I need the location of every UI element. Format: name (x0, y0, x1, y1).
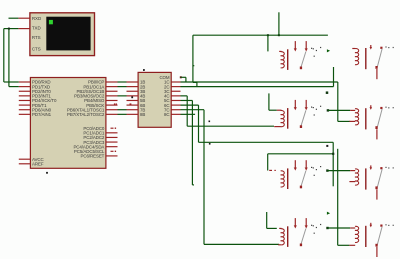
svg-text:RXD: RXD (32, 16, 42, 21)
svg-text:AREF: AREF (32, 162, 44, 167)
svg-text:PB7/XTAL2/TOSC2: PB7/XTAL2/TOSC2 (67, 112, 105, 117)
svg-text:CTS: CTS (32, 46, 41, 51)
svg-text:PD7/AIN1: PD7/AIN1 (32, 112, 52, 117)
svg-text:TXD: TXD (32, 25, 42, 30)
svg-text:8B: 8B (140, 112, 145, 117)
svg-text:8C: 8C (164, 112, 170, 117)
svg-text:RTS: RTS (32, 35, 41, 40)
svg-text:PC6/RESET: PC6/RESET (81, 154, 105, 159)
